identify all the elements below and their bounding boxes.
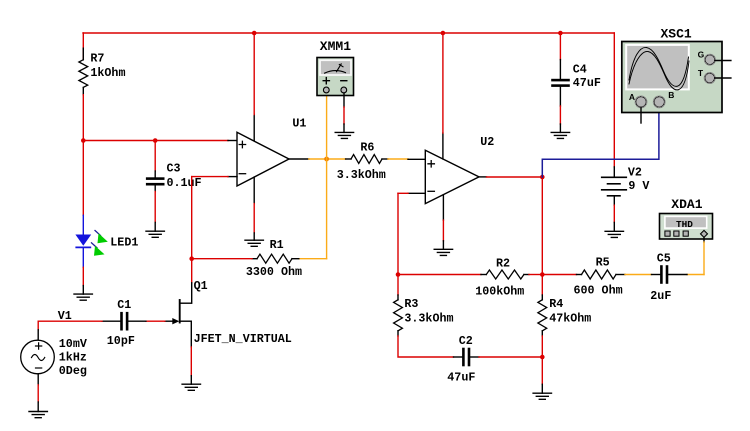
- svg-text:R5: R5: [596, 255, 610, 269]
- svg-text:1kOhm: 1kOhm: [90, 66, 125, 80]
- svg-text:C5: C5: [657, 251, 671, 265]
- wire XMM1 right terminal to ground: [343, 93, 345, 107]
- wire blue to scope B: [542, 107, 659, 177]
- multimeter XMM1: [317, 39, 354, 96]
- svg-text:T: T: [698, 68, 704, 78]
- resistor R3: [397, 275, 399, 296]
- wire U2 output down to R5 node: [541, 177, 543, 275]
- node junction U2 power on rail: [441, 31, 446, 36]
- node junction at Q1 drain: [189, 256, 194, 261]
- node junction R2/R5/R4: [540, 272, 545, 277]
- svg-text:9 V: 9 V: [628, 179, 649, 193]
- wire C4 bottom: [559, 87, 561, 106]
- node junction at C3: [153, 138, 158, 143]
- capacitor C2: [462, 348, 465, 367]
- ground below XMM1: [335, 132, 353, 138]
- wire scope A stub: [640, 107, 642, 123]
- wire orange R1 right: [299, 258, 327, 260]
- svg-text:XMM1: XMM1: [320, 39, 351, 54]
- resistor R7: [79, 60, 88, 88]
- wire U1 minus input: [228, 176, 237, 178]
- svg-text:47kOhm: 47kOhm: [549, 312, 591, 326]
- ground below V1: [29, 412, 47, 418]
- wire C3 bottom: [154, 186, 156, 192]
- distortion analyzer XDA1: [660, 197, 713, 239]
- svg-text:XSC1: XSC1: [661, 26, 692, 41]
- svg-text:100kOhm: 100kOhm: [475, 285, 524, 299]
- svg-text:1kHz: 1kHz: [59, 351, 87, 365]
- svg-text:JFET_N_VIRTUAL: JFET_N_VIRTUAL: [194, 332, 292, 346]
- svg-text:LED1: LED1: [110, 236, 138, 250]
- ground below C3: [146, 231, 164, 237]
- svg-text:C1: C1: [117, 298, 131, 312]
- wire LED cathode: [82, 247, 84, 267]
- wire Q1 gate red: [146, 320, 165, 322]
- svg-text:R7: R7: [90, 52, 104, 66]
- svg-text:C2: C2: [459, 334, 473, 348]
- svg-text:U2: U2: [480, 135, 494, 149]
- wire C3 top: [154, 141, 156, 172]
- svg-text:3.3kOhm: 3.3kOhm: [404, 312, 453, 326]
- ground below U1: [245, 240, 263, 246]
- wire R4 bottom to ground: [541, 357, 543, 384]
- wire V1 bottom: [37, 374, 39, 385]
- svg-text:0Deg: 0Deg: [59, 364, 87, 378]
- wire scope G stub: [715, 60, 731, 62]
- resistor R4: [541, 275, 543, 296]
- svg-text:R6: R6: [360, 140, 374, 154]
- capacitor C1: [102, 320, 120, 322]
- svg-text:B: B: [668, 90, 674, 100]
- wire top rail: [83, 32, 614, 34]
- LED arrow 2: [92, 243, 98, 248]
- resistor R2: [486, 270, 524, 279]
- op-amp U1: [237, 132, 289, 186]
- wire R6 to U2 plus: [388, 158, 408, 160]
- wire R5 to C5 orange: [625, 274, 652, 276]
- svg-text:XDA1: XDA1: [671, 197, 702, 212]
- node junction at R7/LED: [81, 138, 86, 143]
- wire U1 top power pin: [253, 115, 255, 141]
- node junction U2 output: [540, 175, 545, 180]
- wire R1 left: [192, 258, 252, 260]
- svg-text:G: G: [698, 50, 705, 60]
- wire U1 output: [289, 158, 309, 160]
- svg-text:C3: C3: [167, 162, 181, 176]
- wire R7 top lead: [82, 33, 84, 60]
- wire XDA1 terminal down: [703, 237, 705, 242]
- wire V2 bottom: [613, 205, 615, 222]
- svg-text:3300 Ohm: 3300 Ohm: [246, 265, 302, 279]
- wire LED branch red: [82, 141, 84, 216]
- resistor R1: [252, 258, 257, 260]
- transistor Q1: [179, 300, 181, 323]
- svg-text:3.3kOhm: 3.3kOhm: [337, 168, 386, 182]
- ground below R4: [533, 393, 551, 399]
- svg-text:10mV: 10mV: [59, 337, 87, 351]
- svg-text:10pF: 10pF: [107, 334, 135, 348]
- oscilloscope XSC1: [622, 26, 722, 112]
- ground below LED1: [74, 294, 92, 300]
- wire U2 top power pin: [442, 133, 444, 159]
- wire U2 bottom power pin: [442, 195, 444, 220]
- svg-text:R1: R1: [270, 238, 284, 252]
- wire R7 bottom to node: [82, 87, 84, 94]
- resistor R6: [351, 155, 382, 164]
- svg-text:Q1: Q1: [194, 279, 208, 293]
- node junction R4 bottom: [540, 355, 545, 360]
- capacitor C4: [559, 33, 561, 60]
- ground below U2: [434, 249, 452, 255]
- svg-text:U1: U1: [292, 117, 306, 131]
- svg-text:R3: R3: [404, 297, 418, 311]
- svg-text:R4: R4: [549, 297, 563, 311]
- source V1: [38, 320, 102, 322]
- svg-text:2uF: 2uF: [650, 289, 671, 303]
- wire horizontal to U1 plus: [83, 140, 228, 142]
- wire R2 run left: [398, 274, 481, 276]
- wire U2 minus input: [408, 192, 425, 194]
- svg-text:V1: V1: [58, 309, 72, 323]
- wire scope T stub: [715, 77, 731, 79]
- wire U1 bottom power pin: [253, 177, 255, 204]
- svg-text:47uF: 47uF: [573, 76, 601, 90]
- node junction orange at XMM1: [324, 157, 329, 162]
- node junction C4 on rail: [558, 31, 563, 36]
- LED arrow 1: [95, 231, 101, 236]
- svg-text:0.1uF: 0.1uF: [167, 176, 202, 190]
- wire U2 output: [479, 176, 487, 178]
- ground below V2: [605, 231, 623, 237]
- svg-text:47uF: 47uF: [447, 371, 475, 385]
- wire R3 bottom to C2: [398, 336, 454, 357]
- svg-text:R2: R2: [496, 257, 510, 271]
- svg-text:A: A: [629, 92, 635, 102]
- LED LED1: [75, 235, 91, 246]
- op-amp U2: [425, 150, 479, 203]
- ground below C4: [551, 132, 569, 138]
- wire orange vertical XMM1 to R1: [326, 93, 328, 259]
- svg-text:THD: THD: [676, 219, 693, 230]
- svg-text:C4: C4: [573, 62, 587, 76]
- svg-text:V2: V2: [628, 166, 642, 180]
- battery V2: [613, 33, 615, 167]
- resistor R5: [542, 274, 576, 276]
- wire Q1 source to ground: [190, 321, 192, 347]
- svg-text:600 Ohm: 600 Ohm: [574, 284, 623, 298]
- capacitor C3: [146, 177, 165, 180]
- node junction U1 power on rail: [252, 31, 257, 36]
- ground below Q1: [182, 384, 200, 390]
- wire LED anode blue: [82, 215, 84, 234]
- node junction R3 top: [396, 272, 401, 277]
- capacitor C5: [660, 265, 663, 284]
- wire U1 minus vertical to Q1: [191, 177, 193, 283]
